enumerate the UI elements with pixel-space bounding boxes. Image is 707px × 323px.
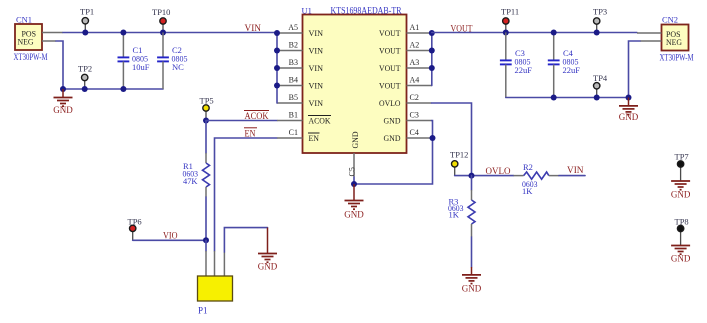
junction TP1 on VIN rail	[82, 30, 88, 36]
svg-text:VIN: VIN	[309, 46, 324, 56]
pin NEG stub	[640, 40, 662, 42]
resistor R2	[514, 162, 560, 196]
svg-text:22uF: 22uF	[563, 65, 581, 75]
U1 pin B5 VIN	[277, 93, 323, 108]
svg-text:A3: A3	[410, 58, 420, 67]
svg-text:22uF: 22uF	[515, 65, 533, 75]
svg-text:U1: U1	[302, 5, 312, 15]
svg-text:NEG: NEG	[666, 37, 682, 47]
ground symbol left	[53, 89, 73, 115]
junction CN1 ground node	[60, 86, 66, 92]
ground symbol at TP7	[671, 181, 691, 200]
U1 pin C2 OVLO	[379, 93, 432, 108]
svg-text:OVLO: OVLO	[486, 166, 511, 176]
svg-text:TP11: TP11	[501, 7, 519, 17]
testpoint TP2	[78, 64, 92, 90]
svg-text:C4: C4	[410, 128, 419, 137]
svg-text:1K: 1K	[522, 186, 533, 196]
connector CN2	[637, 15, 694, 63]
ground symbol at TP8	[671, 246, 691, 264]
junction TP2 on ground rail	[82, 86, 88, 92]
svg-text:ACOK: ACOK	[309, 116, 332, 126]
U1 pin A3 VOUT	[379, 58, 432, 73]
junction C1 bottom	[120, 86, 126, 92]
junction bus B3	[274, 65, 280, 71]
svg-text:TP12: TP12	[450, 150, 468, 160]
wire OVLO net	[455, 175, 514, 177]
svg-text:EN: EN	[309, 133, 320, 143]
svg-text:P1: P1	[198, 306, 208, 316]
svg-text:NEG: NEG	[18, 37, 34, 47]
testpoint TP7	[675, 152, 689, 182]
junction bus B2	[274, 48, 280, 54]
svg-text:GND: GND	[53, 105, 73, 115]
wire CN2 NEG to ground rail	[629, 41, 641, 98]
wire P1 pin3 to ground	[224, 228, 267, 252]
testpoint TP1	[80, 7, 94, 33]
junction TP11/C3	[503, 30, 509, 36]
junction bus A1	[429, 30, 435, 36]
svg-text:B3: B3	[289, 58, 298, 67]
svg-text:VIO: VIO	[163, 231, 178, 241]
svg-text:B5: B5	[289, 93, 298, 102]
junction VIO at P1 pin1 wire	[203, 237, 209, 243]
resistor R3	[448, 176, 475, 267]
svg-text:TP5: TP5	[200, 96, 214, 106]
wire C3/C4 GND pins to C5 node	[354, 121, 433, 185]
svg-text:TP7: TP7	[675, 152, 689, 162]
wire ACOK net	[206, 120, 277, 122]
svg-text:A5: A5	[288, 23, 298, 32]
svg-text:TP2: TP2	[78, 64, 92, 74]
net label ACOK (overlined)	[244, 111, 269, 122]
junction C1 top	[120, 30, 126, 36]
svg-text:R2: R2	[523, 162, 533, 172]
capacitor C1	[118, 33, 150, 90]
svg-text:VIN: VIN	[567, 165, 584, 175]
svg-text:B1: B1	[289, 111, 298, 120]
capacitor C4	[548, 33, 580, 98]
svg-text:CN2: CN2	[662, 15, 678, 25]
junction bus B4	[274, 83, 280, 89]
svg-text:B4: B4	[289, 76, 298, 85]
junction C4 top	[551, 30, 557, 36]
wire VIN right	[559, 175, 585, 177]
pin NEG stub	[42, 40, 56, 42]
junction TP3	[594, 30, 600, 36]
ground symbol at R3	[462, 267, 482, 293]
U1 pin A1 VOUT	[379, 23, 432, 38]
svg-text:VIN: VIN	[309, 81, 324, 91]
svg-text:ACOK: ACOK	[245, 111, 269, 121]
U1 pin C5 GND (bottom)	[348, 132, 361, 178]
testpoint TP12	[450, 150, 468, 176]
svg-text:VIN: VIN	[309, 98, 324, 108]
wire C5 pin to node	[353, 177, 355, 184]
U1 pin A4 VOUT	[379, 76, 432, 91]
svg-text:GND: GND	[350, 132, 360, 149]
svg-text:GND: GND	[384, 133, 401, 143]
U1 pin B3 VIN	[277, 58, 323, 73]
resistor R1	[183, 121, 210, 241]
svg-text:VOUT: VOUT	[379, 81, 401, 91]
svg-text:XT30PW-M: XT30PW-M	[14, 52, 48, 62]
op-amp / IC U1 body	[302, 5, 407, 153]
junction TP10/C2 on VIN rail	[160, 30, 166, 36]
svg-text:VOUT: VOUT	[451, 23, 473, 33]
net label EN (overlined)	[244, 128, 257, 139]
svg-text:VOUT: VOUT	[379, 46, 401, 56]
svg-text:A2: A2	[410, 41, 420, 50]
U1 pin A2 VOUT	[379, 41, 432, 56]
wire right VOUT bus	[431, 33, 433, 86]
wire C2 OVLO pin down to OVLO node	[432, 103, 472, 176]
U1 pin B2 VIN	[277, 41, 323, 56]
svg-text:GND: GND	[344, 209, 364, 219]
U1 pin B1 ACOK	[277, 111, 331, 126]
svg-text:TP4: TP4	[593, 73, 608, 83]
junction TP5/ACOK	[203, 118, 209, 124]
svg-text:VIN: VIN	[309, 63, 324, 73]
svg-text:NC: NC	[172, 62, 184, 72]
svg-text:B2: B2	[289, 41, 298, 50]
testpoint TP11	[501, 7, 519, 33]
svg-text:1K: 1K	[449, 209, 460, 219]
U1 pin C1 EN	[277, 128, 320, 143]
wire VOUT rail	[432, 32, 637, 34]
svg-text:EN: EN	[245, 128, 256, 138]
wire left ground rail	[63, 88, 163, 90]
svg-text:GND: GND	[619, 112, 639, 122]
svg-text:GND: GND	[671, 254, 691, 264]
wire CN1 NEG down to ground rail	[56, 41, 63, 89]
wire VIN rail	[63, 32, 277, 34]
svg-text:TP1: TP1	[80, 7, 94, 17]
svg-text:10uF: 10uF	[132, 62, 150, 72]
ground symbol at U1 C5	[344, 184, 364, 219]
svg-text:KTS1698AEDAB-TR: KTS1698AEDAB-TR	[331, 6, 402, 16]
svg-text:VIN: VIN	[245, 23, 262, 33]
svg-text:VIN: VIN	[309, 28, 324, 38]
junction C4 pin	[430, 135, 436, 141]
junction bus A3	[429, 65, 435, 71]
wire EN net to P1	[215, 138, 278, 251]
svg-text:A1: A1	[410, 23, 420, 32]
junction OVLO node	[469, 173, 475, 179]
svg-text:GND: GND	[384, 116, 401, 126]
testpoint TP10	[152, 7, 170, 33]
ground symbol near P1	[258, 228, 278, 272]
junction bus A5	[274, 30, 280, 36]
wire P1 pin1 down	[205, 240, 207, 251]
junction C5 node	[351, 181, 357, 187]
svg-text:VOUT: VOUT	[379, 63, 401, 73]
svg-text:XT30PW-M: XT30PW-M	[660, 53, 694, 63]
svg-text:CN1: CN1	[16, 15, 32, 25]
junction CN2 ground	[626, 95, 632, 101]
capacitor C2	[157, 33, 187, 90]
connector CN1	[14, 15, 64, 63]
ground symbol right	[619, 98, 639, 122]
junction bus A2	[429, 48, 435, 54]
svg-text:GND: GND	[462, 283, 482, 293]
U1 pin A5 VIN	[277, 23, 323, 38]
U1 pin B4 VIN	[277, 76, 323, 91]
testpoint TP8	[675, 217, 689, 246]
testpoint TP4	[593, 73, 608, 98]
testpoint TP6	[128, 217, 142, 241]
pin POS stub	[42, 32, 63, 34]
svg-text:C2: C2	[410, 93, 419, 102]
svg-text:GND: GND	[671, 190, 691, 200]
wire VIO net	[133, 239, 206, 241]
junction TP4	[594, 95, 600, 101]
U1 pin C3 GND	[384, 111, 432, 126]
wire left VIN bus	[276, 33, 278, 103]
svg-text:TP3: TP3	[593, 7, 607, 17]
svg-text:C1: C1	[289, 128, 298, 137]
svg-text:OVLO: OVLO	[379, 98, 401, 108]
svg-text:47K: 47K	[183, 176, 198, 186]
svg-text:GND: GND	[258, 262, 278, 272]
svg-text:C5: C5	[348, 167, 357, 176]
svg-text:VOUT: VOUT	[379, 28, 401, 38]
svg-text:A4: A4	[410, 76, 420, 85]
U1 pin C4 GND	[384, 128, 433, 143]
svg-text:TP10: TP10	[152, 7, 170, 17]
testpoint TP3	[593, 7, 607, 33]
testpoint TP5	[200, 96, 214, 121]
pin POS stub	[637, 32, 662, 34]
svg-text:C3: C3	[410, 111, 419, 120]
header P1	[198, 251, 233, 316]
wire right ground rail	[506, 97, 629, 99]
capacitor C3	[500, 33, 532, 98]
junction C4 bottom	[551, 95, 557, 101]
